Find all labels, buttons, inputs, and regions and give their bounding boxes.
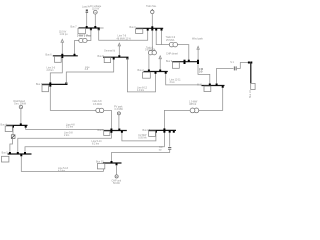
load on bus 7 xyxy=(78,28,85,33)
label line 5-14 xyxy=(92,140,103,145)
transformer T2L circles xyxy=(96,108,104,112)
transformer T2f wire bottom xyxy=(148,54,150,71)
bus 7 xyxy=(79,27,100,29)
wire X2 to bus 2 xyxy=(151,14,153,28)
switch S3 open xyxy=(234,66,236,70)
node bus11-line911 xyxy=(209,84,211,86)
transformer T3 circles xyxy=(190,108,199,113)
value label bus9 xyxy=(199,68,203,74)
node bus7-trafo xyxy=(90,28,92,30)
node bus5-line514 xyxy=(24,152,26,154)
node bus4-gen xyxy=(20,123,22,125)
svg-text:Bus 6: Bus 6 xyxy=(46,53,53,56)
svg-text:1.02 pu: 1.02 pu xyxy=(60,33,69,36)
node bus9-line911 xyxy=(197,62,199,64)
transformer T2f circles xyxy=(148,51,156,55)
node bus5-switch xyxy=(9,152,11,154)
svg-text:50 kW: 50 kW xyxy=(113,182,121,185)
label line 5-8 xyxy=(64,132,73,138)
wire line 3-6 xyxy=(50,58,62,84)
bus 2 (feeder 2 HV) xyxy=(136,27,163,29)
svg-text:0.63 MVA: 0.63 MVA xyxy=(145,48,156,51)
bus 6 xyxy=(53,55,78,57)
node bus3-line38 xyxy=(65,82,67,84)
bus 3 xyxy=(42,83,68,85)
external source X2 xyxy=(151,9,154,13)
node bus14-line148 xyxy=(155,131,157,133)
load arrow on bus 9 xyxy=(197,46,199,59)
wire trafo3 right bus11 side xyxy=(199,88,223,111)
wire trafo3 left bus14 side xyxy=(164,110,190,129)
load on bus 14 xyxy=(149,131,156,136)
node bus2-trafo2 xyxy=(151,29,153,31)
svg-text:Bus 5: Bus 5 xyxy=(2,151,9,154)
node bus2-extra xyxy=(161,29,163,31)
svg-text:Gen. 20kW: Gen. 20kW xyxy=(14,103,27,106)
wire switch to bus10 xyxy=(237,63,251,69)
load arrow on bus 12 xyxy=(159,56,161,70)
svg-text:3 km: 3 km xyxy=(170,81,175,84)
node bus10-top xyxy=(248,62,250,64)
node bus4-switch xyxy=(12,126,14,128)
svg-text:WPC2: WPC2 xyxy=(189,103,197,106)
svg-text:110 kV: 110 kV xyxy=(92,7,100,10)
node bus9-arrow xyxy=(197,60,199,62)
generator PV G3 xyxy=(19,105,22,108)
node bus2-line72 xyxy=(147,29,149,31)
wire feeder bus3 to trafo2L xyxy=(50,87,95,111)
svg-text:8.2 km: 8.2 km xyxy=(92,143,99,146)
node bus12-line1211 xyxy=(165,72,167,74)
wire G13 to bus 13 xyxy=(116,165,118,174)
wire line 4-8 xyxy=(26,128,104,130)
node bus12-trafo xyxy=(148,70,150,72)
svg-text:4.9 km: 4.9 km xyxy=(58,170,65,173)
load on bus 4 xyxy=(5,126,12,132)
load on bus 8 xyxy=(104,58,110,63)
load on bus 2 xyxy=(136,29,143,34)
node bus11-switch xyxy=(216,84,218,86)
node bus14-switch2 xyxy=(169,131,171,133)
label T2f xyxy=(145,46,156,51)
node bus11-trafo3 xyxy=(222,86,224,88)
svg-text:Bus 9: Bus 9 xyxy=(166,60,173,63)
svg-text:Wind park: Wind park xyxy=(192,38,204,41)
wire bus14 to switch S2 xyxy=(169,133,171,147)
wire ext grid X1 to bus 7 xyxy=(86,13,88,28)
wire bus2-trafo1 second riser xyxy=(161,31,163,45)
bus 8 xyxy=(103,56,129,58)
node bus8-arrow xyxy=(118,55,120,57)
svg-text:25 MVA: 25 MVA xyxy=(166,39,175,42)
node bus5-line513 xyxy=(20,154,22,156)
generator G1 xyxy=(93,10,97,14)
wire bus4 to switch S1 xyxy=(12,128,14,135)
wire G3 to bus 4 xyxy=(20,109,22,125)
bus 10 (vertical) xyxy=(250,63,252,84)
node bus7-line xyxy=(98,28,100,30)
bus 9 xyxy=(172,61,199,63)
svg-text:2.8 km: 2.8 km xyxy=(47,69,54,72)
node bus4-line48 xyxy=(25,126,27,128)
wire line 14-8 xyxy=(122,133,156,141)
wire switch path bus11 to bus10 xyxy=(217,68,234,83)
generator G13 xyxy=(115,175,118,178)
wire line 5-14 xyxy=(25,132,164,152)
bus 13 xyxy=(103,162,122,164)
bus 8b xyxy=(104,130,127,132)
node bus10-top2 xyxy=(250,62,252,64)
load on bus 3 xyxy=(42,85,49,92)
wire line 12-11 xyxy=(166,74,202,85)
node bus6-trafo xyxy=(74,54,76,56)
value label load bus7 xyxy=(77,35,91,38)
svg-text:0.6 MVA: 0.6 MVA xyxy=(93,103,102,106)
load on bus 13 xyxy=(97,164,104,169)
wire bus7 stub xyxy=(100,27,104,29)
label T2L xyxy=(93,100,103,106)
label line 12-11 xyxy=(170,79,182,85)
label line 4-8 xyxy=(66,124,75,129)
load on bus 11 xyxy=(204,86,211,91)
label PV G8 xyxy=(114,106,123,112)
wire switch S2 to bus 13 xyxy=(112,150,170,162)
node bus2-ext xyxy=(151,26,153,28)
svg-text:Bus 10: Bus 10 xyxy=(249,90,252,98)
svg-text:48 MVA 12 %: 48 MVA 12 % xyxy=(117,38,132,41)
bus 4 xyxy=(6,124,27,126)
node bus3-line36 xyxy=(49,82,51,84)
node bus8b-line148 xyxy=(121,131,123,133)
node bus8-line812 xyxy=(126,58,128,60)
node bus8b-trafo xyxy=(110,129,112,131)
node bus14-x xyxy=(173,131,175,133)
wire line 5-8 xyxy=(18,132,112,152)
wire line 5-13 xyxy=(21,156,103,171)
transformer T1f circles xyxy=(169,42,177,47)
wire G1 to bus 7 xyxy=(94,14,96,28)
svg-text:0.05 Mv: 0.05 Mv xyxy=(138,137,147,140)
label G13 xyxy=(112,180,122,185)
svg-text:Bus 7: Bus 7 xyxy=(71,26,78,29)
load arrow on bus 6 xyxy=(61,39,64,55)
value label bus7 left xyxy=(59,31,68,37)
wire trafo2L to bus 8b xyxy=(104,110,112,129)
node bus9-a2 xyxy=(184,62,186,64)
bus 5 xyxy=(8,153,32,155)
wire switch S1 to bus 5 xyxy=(10,139,13,152)
label line 5-13 xyxy=(58,167,69,173)
node bus14-trafo3 xyxy=(163,128,165,130)
bus 14 xyxy=(149,129,177,131)
wire line 7-2 xyxy=(99,29,148,40)
node bus14-line514 xyxy=(163,131,165,133)
transformer T1f wires xyxy=(156,31,169,45)
svg-text:Bus 2: Bus 2 xyxy=(138,69,145,72)
node bus8-line38 xyxy=(113,58,115,60)
svg-text:General ld: General ld xyxy=(104,49,116,52)
wire line 8-12 xyxy=(127,58,155,92)
node bus6-line36 xyxy=(61,56,63,58)
switch S1 open xyxy=(11,135,15,139)
node bus2-trafo1 xyxy=(155,29,157,31)
node bus8b-pv xyxy=(118,129,120,131)
load on bus 9 xyxy=(172,62,179,68)
svg-text:CHP diesel: CHP diesel xyxy=(166,53,178,56)
label line 3-6 xyxy=(47,67,56,73)
node bus9-a xyxy=(184,60,186,62)
node bus12-arrow xyxy=(159,70,161,72)
generator PV G8 xyxy=(117,112,120,115)
load on bus 5 xyxy=(2,156,9,162)
switch S2 open xyxy=(168,147,171,149)
node bus13-gen xyxy=(116,163,118,165)
label PV G3 xyxy=(14,100,27,106)
external grid X1 xyxy=(86,10,89,13)
node bus7-gen xyxy=(94,26,96,28)
wire G8 to bus 8b xyxy=(118,115,120,129)
load on bus 8b xyxy=(104,131,110,135)
label switch S2 xyxy=(159,146,163,151)
node bus13-line513 xyxy=(103,163,105,165)
wire line 3-8 xyxy=(66,58,113,84)
label T1f xyxy=(166,36,176,42)
svg-text:2 km: 2 km xyxy=(64,134,69,137)
wire line 9-11 xyxy=(198,64,210,85)
node bus9-trafo xyxy=(188,60,190,62)
label ext grid A xyxy=(82,5,102,11)
node bus12-line812 xyxy=(155,72,157,74)
label line 8-12 xyxy=(137,87,148,93)
svg-text:Trafo Sta.: Trafo Sta. xyxy=(146,5,157,8)
svg-text:3.2 km: 3.2 km xyxy=(66,126,73,129)
label line 7-2 xyxy=(117,35,132,41)
svg-text:0.3 MW: 0.3 MW xyxy=(115,108,124,111)
label line 3-8 xyxy=(85,66,91,71)
load on bus 6 xyxy=(55,56,62,62)
node bus5-line58 xyxy=(17,152,19,154)
node bus7-extgrid xyxy=(86,26,88,28)
transformer T1 circles xyxy=(79,38,87,42)
transformer T1 bus7-bus6 wires xyxy=(87,29,91,40)
node bus3-feeder xyxy=(49,85,51,87)
value label bus 14 xyxy=(138,134,147,139)
load arrow on bus 8 xyxy=(118,43,120,55)
node bus13-switch2 xyxy=(111,161,113,163)
transformer T2f wire top xyxy=(151,31,153,51)
load on bus 12 xyxy=(143,72,151,78)
label T3 xyxy=(189,100,198,105)
load on bus 10 xyxy=(251,83,255,89)
bus 11 xyxy=(202,85,225,87)
node bus6-arrow xyxy=(61,54,63,56)
svg-text:0 MW 0 Mvar: 0 MW 0 Mvar xyxy=(77,35,91,38)
svg-text:4.9 km: 4.9 km xyxy=(137,89,144,92)
node bus8b-line58 xyxy=(110,131,112,133)
bus 12 (feeder 2 MV) xyxy=(144,71,168,73)
svg-text:Bus 8: Bus 8 xyxy=(98,129,105,132)
